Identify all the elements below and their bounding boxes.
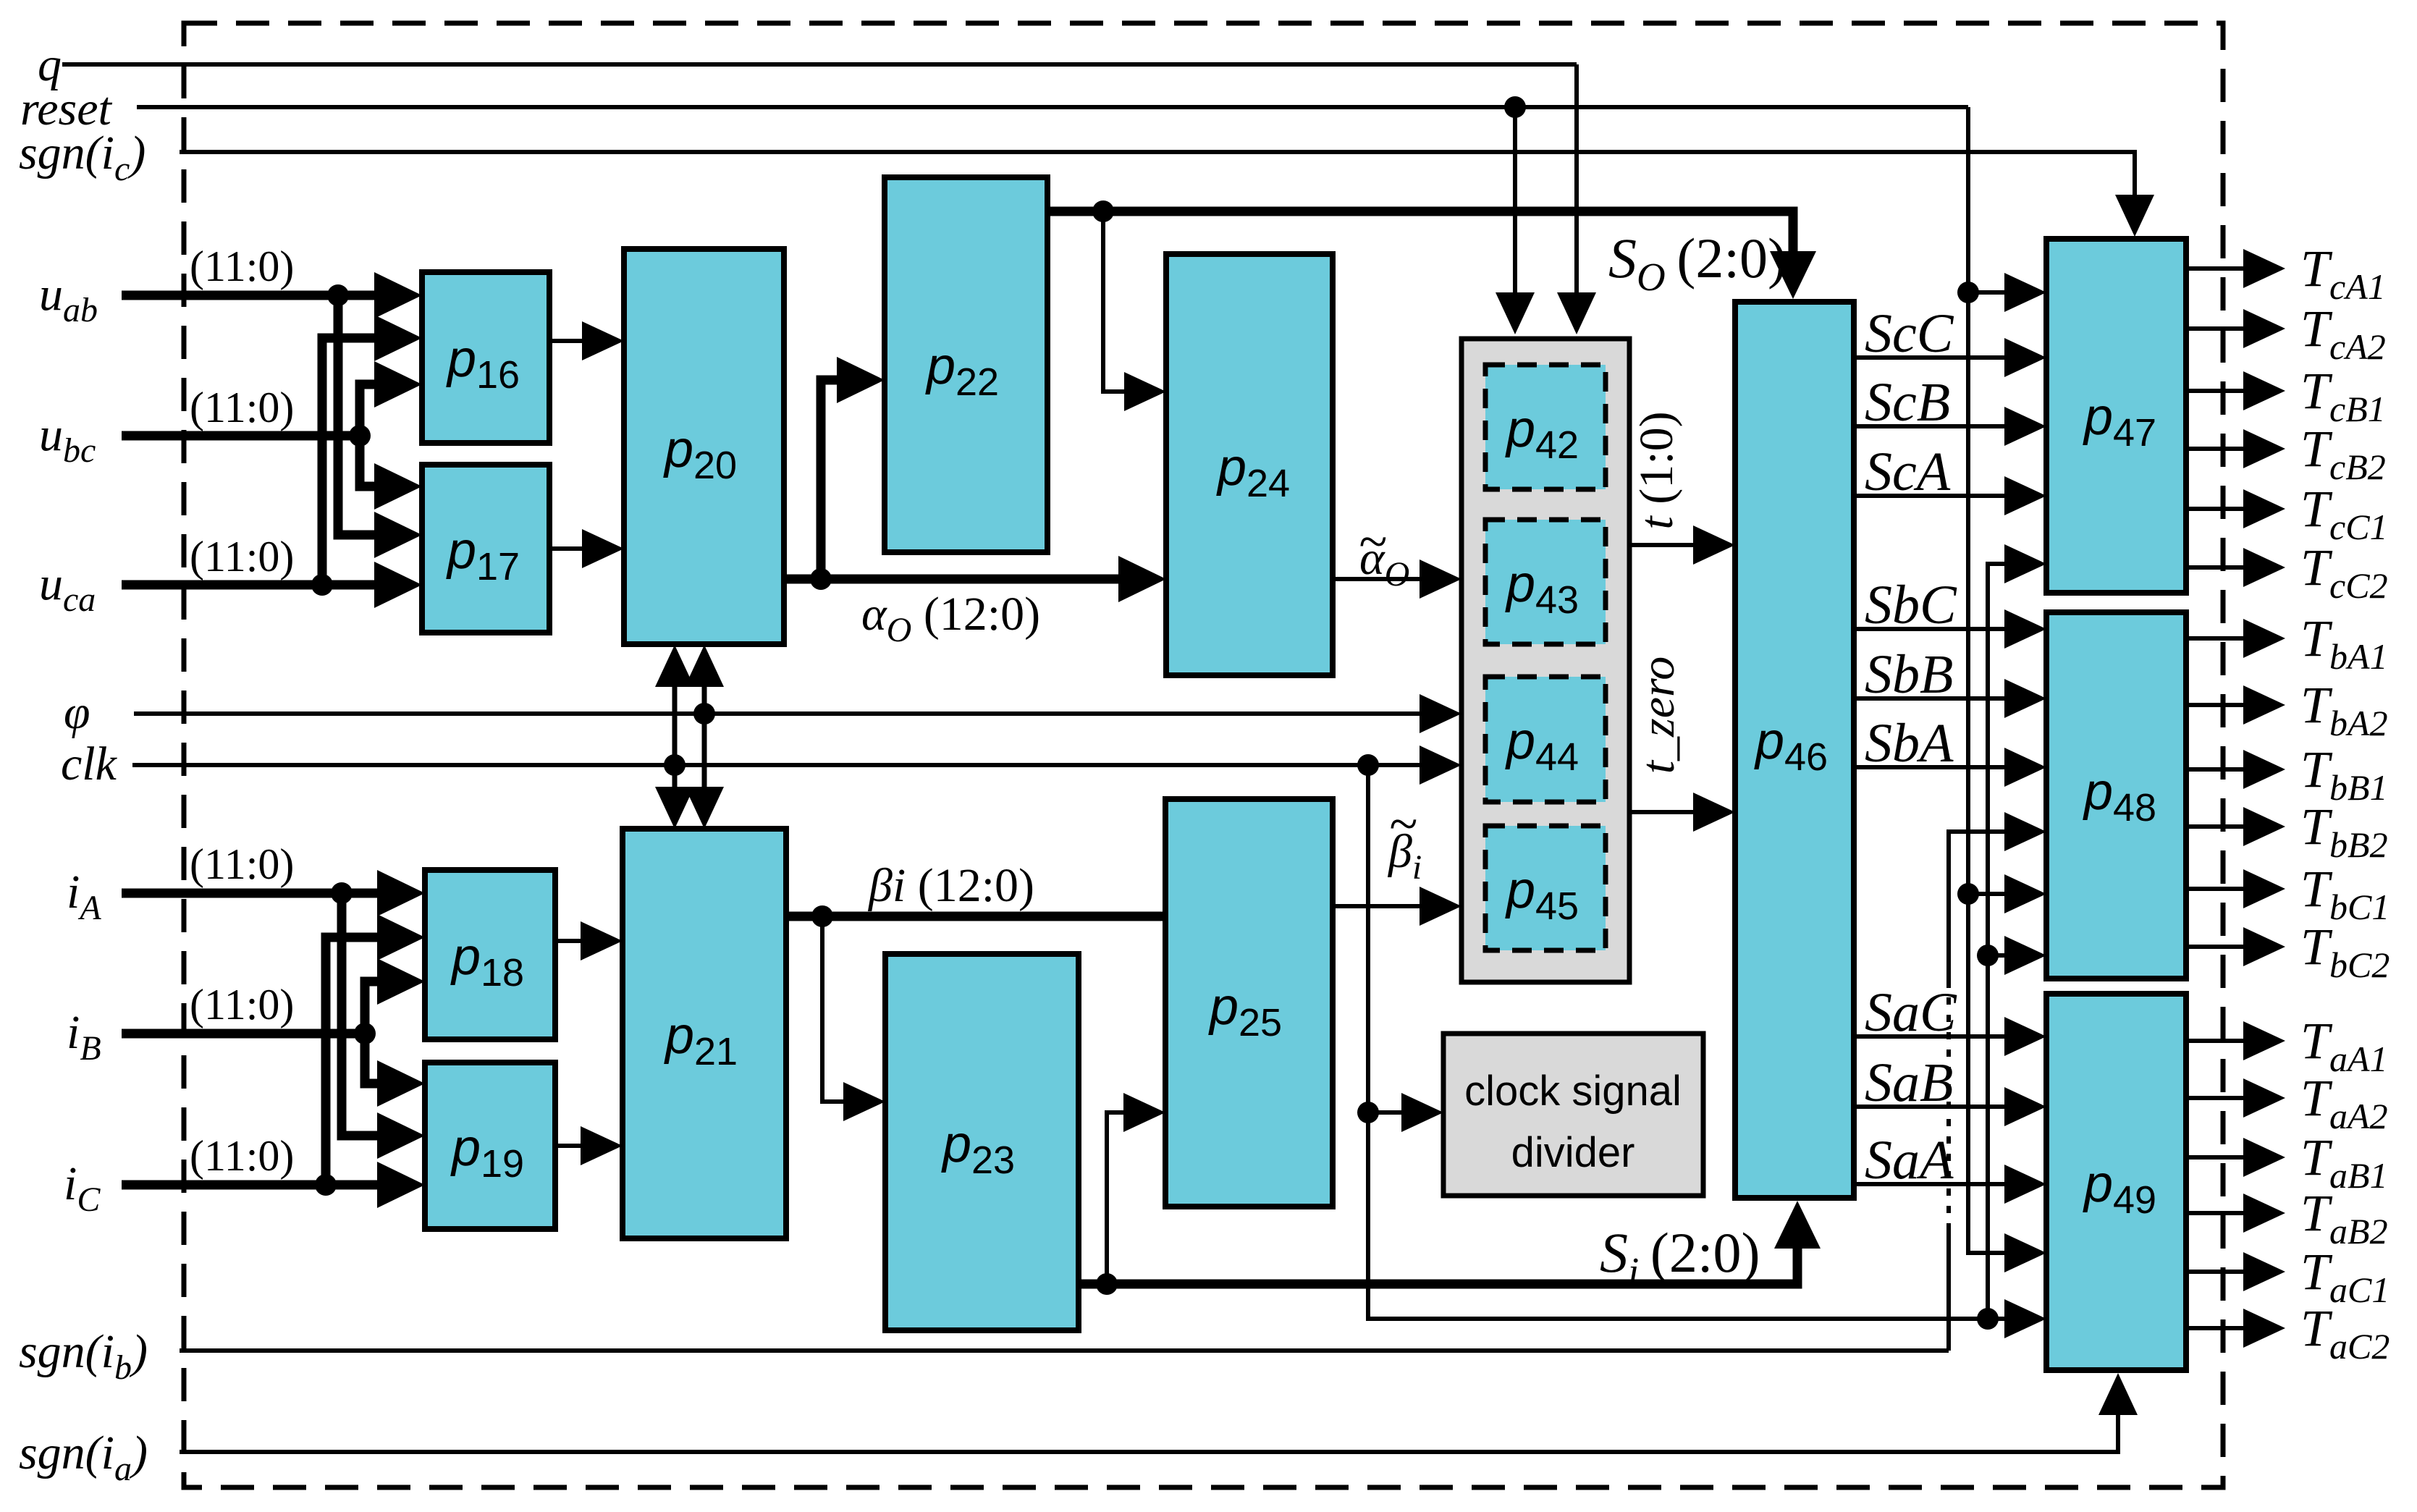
svg-text:ScB: ScB	[1865, 372, 1950, 433]
arrowhead SaB into p49	[2004, 1087, 2046, 1126]
arrowhead sgn(ib) into p48 pin4	[2004, 812, 2046, 851]
arrowhead clk into p21 top	[655, 787, 694, 829]
wire u_ca branch to p16 pin2	[322, 338, 387, 585]
arrowhead ScB into p47	[2004, 407, 2046, 446]
arrowhead i_B into p18 pin3	[377, 958, 425, 1005]
arrowhead output TaC2	[2243, 1309, 2285, 1348]
block p23	[885, 954, 1079, 1330]
arrowhead clk into p20 bottom	[655, 645, 694, 687]
arrowhead output TaA2	[2243, 1078, 2285, 1118]
arrowhead beta~i into p45 row	[1420, 887, 1461, 926]
wire wire p19 out to p21 pin2	[555, 1144, 588, 1148]
arrowhead output TcA2	[2243, 309, 2285, 348]
wire u_bc branch to p16 pin3	[360, 384, 391, 436]
arrowhead i_A into p18 pin1	[377, 870, 425, 916]
arrowhead into p21 pin1	[581, 921, 623, 960]
svg-text:βi (12:0): βi (12:0)	[867, 859, 1034, 912]
arrowhead clk_div into p49 pin5	[2004, 1299, 2046, 1338]
svg-text:(11:0): (11:0)	[190, 840, 294, 888]
wire clk drop to divider and clk_div rail	[1368, 765, 1988, 1319]
wire net u_ca bus	[122, 580, 387, 590]
block p49	[2046, 994, 2186, 1370]
wire net i_C bus	[122, 1181, 390, 1190]
wire alpha_O branch to p22 pin1	[821, 380, 854, 579]
junction clk_div rail at p48 pin6	[1977, 945, 1999, 966]
svg-text:(11:0): (11:0)	[190, 1132, 294, 1180]
arrowhead output TbA2	[2243, 685, 2285, 725]
wire wire SbC p46 to p48	[1854, 627, 2012, 631]
arrowhead output TaA1	[2243, 1021, 2285, 1060]
svg-text:SaC: SaC	[1865, 982, 1957, 1043]
arrowhead clk_div into p48 pin6	[2004, 936, 2046, 975]
wire net sgn(ia)	[180, 1408, 2118, 1452]
wire wire output TcA1	[2186, 266, 2251, 271]
arrowhead output TcB1	[2243, 371, 2285, 410]
arrowhead SbA into p48	[2004, 748, 2046, 787]
wire clk_div stub to p48 pin6	[1988, 953, 2012, 958]
arrowhead sgn(ic) into p47 top	[2115, 195, 2154, 237]
block p22	[885, 177, 1047, 552]
arrowhead u_bc into p16 pin3	[374, 361, 422, 407]
wire wire ScC p46 to p47	[1854, 355, 2012, 360]
arrowhead clk into divider	[1401, 1093, 1443, 1132]
wire sgn(ib) vertical lower	[1946, 1230, 1951, 1351]
wire wire SaB p46 to p49	[1854, 1105, 2012, 1109]
junction u_bc fanout	[349, 425, 371, 447]
wire wire p16 out to p20 pin1	[549, 339, 589, 343]
wire wire p17 out to p20 pin2	[549, 546, 589, 551]
block clock signal divider	[1443, 1034, 1703, 1196]
junction i_C fanout	[315, 1174, 337, 1196]
arrowhead alpha_O into p24 pin2	[1118, 556, 1166, 602]
svg-text:φ: φ	[64, 686, 90, 739]
junction u_ca fanout	[311, 574, 333, 596]
arrowhead output TcB2	[2243, 429, 2285, 468]
wire reset stub to p48 pin5	[1968, 892, 2012, 896]
junction clk_div rail at p49 pin5	[1977, 1308, 1999, 1330]
svg-text:(11:0): (11:0)	[190, 533, 294, 580]
wire net alpha_O bus	[784, 575, 1131, 584]
block p46	[1735, 302, 1854, 1198]
arrowhead output TaC1	[2243, 1252, 2285, 1291]
wire wire output TaC2	[2186, 1326, 2251, 1330]
svg-text:~: ~	[1389, 795, 1417, 853]
wire clk stub into divider	[1368, 1110, 1412, 1115]
arrowhead i_C into p18 pin2	[377, 914, 425, 960]
wire net clk horizontal	[132, 763, 1430, 767]
arrowhead SaC into p49	[2004, 1017, 2046, 1056]
arrowhead into p20 pin2	[582, 529, 624, 568]
arrowhead reset into p49 pin4	[2004, 1233, 2046, 1272]
wire net S_O bus	[1047, 211, 1793, 262]
wire beta_i branch to p23 pin1	[822, 916, 854, 1102]
arrowhead output TcA1	[2243, 249, 2285, 288]
block p48	[2046, 612, 2186, 979]
arrowhead output TaB2	[2243, 1194, 2285, 1233]
wire wire output TbC2	[2186, 945, 2251, 949]
wire wire output TaA1	[2186, 1039, 2251, 1043]
arrowhead alpha_O into p22 pin1	[837, 357, 885, 403]
wire wire output TaA2	[2186, 1096, 2251, 1100]
arrowhead reset into p42 container top	[1496, 292, 1535, 334]
svg-text:t (1:0): t (1:0)	[1630, 411, 1683, 529]
wire wire alpha~O p24 to p43	[1333, 577, 1430, 581]
wire S_i branch to p25 pin2	[1107, 1112, 1134, 1284]
wire net reset horizontal	[137, 105, 1968, 109]
wire net phi horizontal	[134, 711, 1430, 716]
wire net reset drop to p42 container	[1513, 107, 1517, 300]
wire wire SbB p46 to p48	[1854, 696, 2012, 701]
arrowhead output TbA1	[2243, 619, 2285, 658]
arrowhead i_B into p19 pin1	[377, 1060, 425, 1107]
wire wire beta~i p25 to p45	[1333, 904, 1430, 908]
wire wire ScB p46 to p47	[1854, 424, 2012, 428]
wire wire output TcC2	[2186, 565, 2251, 570]
arrowhead phi into p20 bottom	[685, 645, 724, 687]
arrowhead SbC into p48	[2004, 609, 2046, 649]
svg-text:SaA: SaA	[1865, 1130, 1954, 1191]
svg-text:divider: divider	[1511, 1129, 1635, 1176]
wire wire output TcB2	[2186, 447, 2251, 451]
junction u_ab fanout	[327, 284, 349, 306]
svg-text:clk: clk	[61, 738, 118, 790]
wire wire output TaB1	[2186, 1155, 2251, 1160]
junction clk branch to p20/p21	[664, 754, 686, 776]
block p42	[1485, 365, 1606, 489]
arrowhead output TbC2	[2243, 927, 2285, 966]
junction phi branch to p20/p21	[693, 703, 715, 725]
wire net sgn(ic)	[180, 152, 2135, 204]
arrowhead clk into p42 container left	[1420, 746, 1461, 785]
arrowhead phi into p21 top	[685, 787, 724, 829]
arrowhead sgn(ia) into p49 bottom	[2098, 1373, 2138, 1415]
wire sgn(ib) vertical upper to p48 pin4	[1949, 832, 2012, 988]
arrowhead S_i into p25 pin2	[1123, 1093, 1165, 1132]
wire net reset vertical to p47/p48/p49	[1968, 107, 2012, 1253]
wire wire SaA p46 to p49	[1854, 1182, 2012, 1186]
arrowhead S_O into p46 top	[1770, 251, 1816, 299]
arrowhead alpha~O into p43 row	[1420, 559, 1461, 599]
arrowhead u_ab into p16 pin1	[374, 272, 422, 318]
wire i_B branch to p19 pin1	[365, 1034, 394, 1084]
arrowhead SbB into p48	[2004, 679, 2046, 718]
arrowhead S_i into p46 bottom	[1774, 1201, 1821, 1249]
wire phi vertical p20-p21	[702, 677, 707, 800]
junction alpha_O branch to p22	[810, 568, 832, 590]
wire wire output TbB2	[2186, 824, 2251, 829]
block p18	[425, 870, 555, 1039]
junction clk branch to divider	[1357, 754, 1379, 776]
svg-text:t_zero: t_zero	[1632, 656, 1684, 774]
wire i_B branch to p18 pin3	[365, 981, 394, 1034]
arrowhead ScC into p47	[2004, 338, 2046, 377]
wire wire output TaB2	[2186, 1211, 2251, 1215]
arrowhead reset into p47 pin1	[2004, 273, 2046, 312]
wire S_O branch to p24 pin1	[1103, 211, 1134, 392]
wire net i_A bus	[122, 889, 390, 898]
arrowhead u_ca into p16 pin2	[374, 315, 422, 361]
wire wire t(1:0)	[1629, 543, 1701, 547]
block p25	[1165, 799, 1333, 1207]
block p45	[1485, 826, 1606, 950]
wire wire output TcB1	[2186, 389, 2251, 393]
svg-text:(11:0): (11:0)	[190, 981, 294, 1029]
arrowhead clk_div into p47 pin5	[2004, 544, 2046, 583]
block p21	[623, 829, 786, 1238]
wire wire output TbB1	[2186, 767, 2251, 772]
wire wire SbA p46 to p48	[1854, 765, 2012, 769]
junction i_B fanout	[354, 1023, 376, 1044]
wire wire output TaC1	[2186, 1270, 2251, 1274]
svg-text:clock signal: clock signal	[1464, 1068, 1682, 1115]
wire wire output TcA2	[2186, 326, 2251, 331]
block p17	[422, 465, 549, 633]
svg-text:(11:0): (11:0)	[190, 384, 294, 431]
svg-text:ScC: ScC	[1865, 303, 1954, 364]
wire sgn(ib) vertical dashed crossing	[1946, 988, 1951, 1230]
arrowhead phi into p42 container left	[1420, 694, 1461, 733]
arrowhead u_ab into p17 pin2	[374, 512, 422, 558]
block p47	[2046, 239, 2186, 593]
arrowhead u_ca into p17 pin3	[374, 562, 422, 608]
wire u_ab branch to p17 pin2	[338, 295, 387, 535]
arrowhead t_zero into p46	[1693, 793, 1735, 832]
block p43	[1485, 520, 1606, 644]
svg-text:ScA: ScA	[1865, 442, 1951, 502]
svg-text:Si (2:0): Si (2:0)	[1600, 1221, 1760, 1293]
wire wire output TbC1	[2186, 887, 2251, 891]
wire wire p18 out to p21 pin1	[555, 939, 588, 943]
wire wire SaC p46 to p49	[1854, 1034, 2012, 1039]
svg-text:SO (2:0): SO (2:0)	[1608, 227, 1787, 299]
arrowhead output TbB1	[2243, 750, 2285, 789]
svg-text:SbC: SbC	[1865, 575, 1957, 635]
wire clk vertical p20-p21	[672, 677, 678, 800]
arrowhead i_A into p19 pin2	[377, 1112, 425, 1159]
junction beta_i branch to p23	[811, 905, 833, 927]
block p16	[422, 272, 549, 443]
wire net q horizontal	[62, 62, 1577, 67]
block p24	[1166, 254, 1333, 675]
junction reset to p48 pin5	[1957, 883, 1979, 905]
arrowhead output TbB2	[2243, 807, 2285, 846]
arrowhead into p20 pin1	[582, 321, 624, 360]
junction reset branch to p42 container	[1504, 96, 1526, 118]
junction i_A fanout	[331, 882, 353, 904]
wire u_bc branch to p17 pin1	[360, 436, 391, 486]
arrowhead output TbC1	[2243, 869, 2285, 908]
junction S_i branch to p25	[1096, 1273, 1118, 1295]
wire i_C branch to p18 pin2	[326, 937, 390, 1185]
svg-text:SbA: SbA	[1865, 713, 1954, 774]
arrowhead into p21 pin2	[581, 1126, 623, 1165]
arrowhead u_bc into p17 pin1	[374, 463, 422, 510]
arrowhead reset into p48 pin5	[2004, 874, 2046, 913]
wire wire output TbA1	[2186, 636, 2251, 641]
arrowhead i_C into p19 pin3	[377, 1162, 425, 1208]
arrowhead beta_i into p23 pin1	[843, 1082, 885, 1121]
arrowhead output TaB1	[2243, 1138, 2285, 1177]
svg-text:SbB: SbB	[1865, 644, 1953, 705]
container for p42-p45	[1461, 339, 1629, 982]
wire wire t_zero	[1629, 810, 1701, 814]
wire net beta_i bus	[786, 912, 1165, 921]
arrowhead t into p46	[1693, 525, 1735, 565]
block p44	[1485, 677, 1606, 802]
wire net S_i bus	[1079, 1234, 1797, 1284]
svg-text:~: ~	[1359, 512, 1387, 570]
wire wire output TcC1	[2186, 507, 2251, 511]
wire net q vertical drop to p42 container	[1574, 64, 1579, 300]
arrowhead q into p42 container top	[1557, 292, 1596, 334]
junction clk tap to divider input	[1357, 1102, 1379, 1123]
wire clk_div stub to p49 pin5	[1988, 1317, 2012, 1321]
block p20	[624, 249, 784, 644]
wire net i_B bus	[122, 1029, 365, 1039]
junction S_O branch to p24	[1092, 200, 1114, 222]
block p19	[425, 1063, 555, 1229]
arrowhead SaA into p49	[2004, 1165, 2046, 1204]
svg-text:SaB: SaB	[1865, 1052, 1953, 1113]
wire net u_bc bus	[122, 431, 360, 441]
svg-text:(11:0): (11:0)	[190, 242, 294, 290]
junction reset to p47 pin1	[1957, 282, 1979, 303]
wire wire output TbA2	[2186, 703, 2251, 707]
arrowhead S_O into p24 pin1	[1124, 372, 1166, 411]
arrowhead output TcC2	[2243, 548, 2285, 587]
wire i_A branch to p19 pin2	[342, 893, 390, 1136]
wire clk_div rail vertical	[1988, 564, 2012, 1319]
arrowhead output TcC1	[2243, 489, 2285, 528]
wire reset stub to p47 pin1	[1968, 290, 2012, 295]
arrowhead ScA into p47	[2004, 476, 2046, 515]
wire wire ScA p46 to p47	[1854, 494, 2012, 498]
wire net sgn(ib) horizontal	[180, 1348, 1949, 1353]
wire net u_ab bus	[122, 291, 387, 300]
